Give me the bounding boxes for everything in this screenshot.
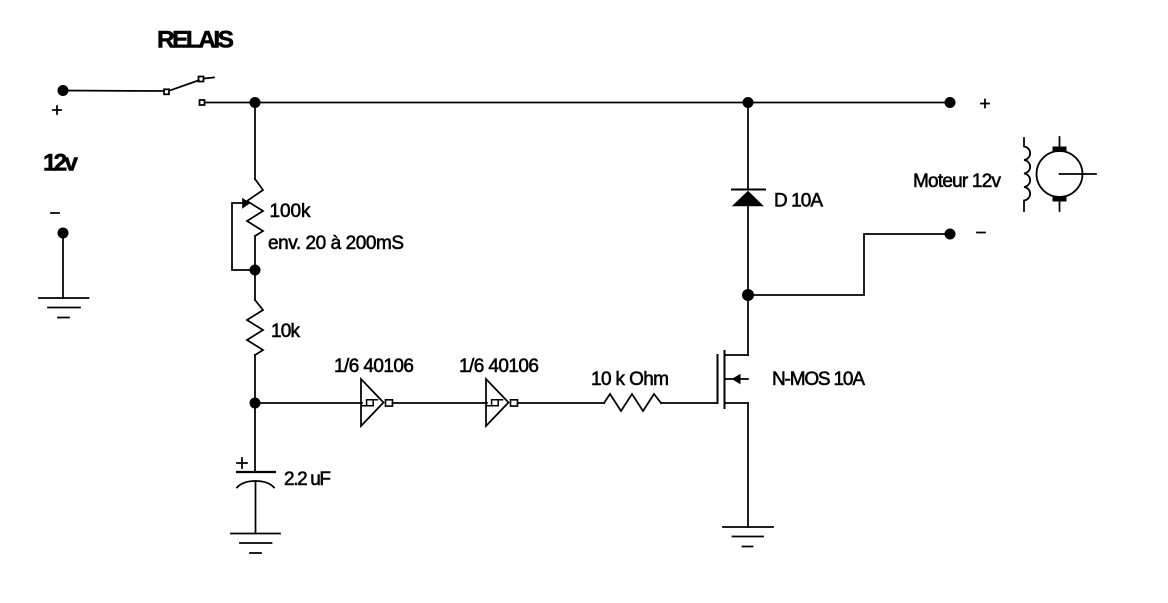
wire battery to relay (63, 90, 164, 93)
node drain junction (742, 289, 754, 301)
motor shaft (1060, 173, 1097, 175)
wire rail to potentiometer (254, 103, 256, 180)
wire capacitor to ground (255, 481, 257, 534)
wire node to capacitor (254, 403, 256, 471)
wire top rail (205, 102, 950, 104)
relay output terminal (200, 100, 205, 105)
relay switch contact (164, 77, 214, 95)
capacitor 2.2uF (237, 458, 275, 488)
node motor plus (945, 97, 956, 108)
wire drain node to motor minus (748, 234, 950, 295)
svg-text:Moteur 12v: Moteur 12v (913, 171, 1002, 192)
resistor 10k (247, 300, 263, 355)
ground mosfet (723, 527, 773, 547)
motor M1 (1024, 137, 1096, 211)
svg-text:1/6 40106: 1/6 40106 (334, 356, 414, 377)
wire resistor to gate (661, 402, 717, 404)
svg-text:env. 20 à 200mS: env. 20 à 200mS (268, 233, 404, 254)
node motor minus (945, 229, 956, 240)
motor body circle (1037, 151, 1083, 197)
battery minus node (58, 228, 69, 239)
svg-text:RELAIS: RELAIS (157, 27, 234, 54)
ground capacitor (231, 534, 280, 554)
inverter U1 (schmitt) (361, 379, 393, 426)
motor field coil (1024, 138, 1030, 211)
wire node to inverter1 (255, 402, 362, 404)
battery plus node (58, 85, 69, 96)
svg-text:N-MOS 10A: N-MOS 10A (772, 369, 865, 390)
wire pot to 10k resistor (254, 236, 256, 300)
resistor 10 k Ohm (604, 394, 661, 411)
motor top stub (1059, 137, 1061, 147)
node top rail left (250, 97, 261, 108)
svg-text:100k: 100k (270, 201, 312, 222)
motor bottom brush (1053, 196, 1067, 202)
motor bottom stub (1059, 202, 1061, 212)
wire inverter2 to resistor (518, 402, 605, 404)
plus label battery (53, 106, 61, 114)
svg-text:2.2 uF: 2.2 uF (284, 469, 331, 490)
diode D1 (732, 190, 765, 207)
svg-text:12v: 12v (43, 150, 78, 177)
wire battery minus to ground (62, 233, 64, 298)
wire source down (747, 403, 749, 527)
inverter U2 (schmitt) (486, 379, 518, 426)
minus label battery (51, 212, 59, 214)
wire diode to rail (747, 103, 749, 190)
plus label motor (981, 100, 989, 108)
minus label motor (977, 232, 985, 234)
wire drain up (747, 295, 749, 355)
wire 10k to node (254, 355, 256, 403)
wire inverter1 to inverter2 (393, 402, 488, 404)
svg-text:1/6 40106: 1/6 40106 (459, 356, 539, 377)
svg-text:D 10A: D 10A (774, 191, 823, 212)
mosfet Q1 N-MOS (718, 351, 749, 408)
wire node to diode (747, 206, 749, 295)
potentiometer 100k (232, 179, 263, 270)
ground battery (39, 298, 89, 318)
node top rail diode (743, 97, 754, 108)
node RC junction (250, 398, 261, 409)
motor top brush (1053, 147, 1067, 153)
svg-text:10 k Ohm: 10 k Ohm (591, 369, 669, 390)
svg-text:10k: 10k (271, 321, 301, 342)
node pot bottom (250, 265, 261, 276)
